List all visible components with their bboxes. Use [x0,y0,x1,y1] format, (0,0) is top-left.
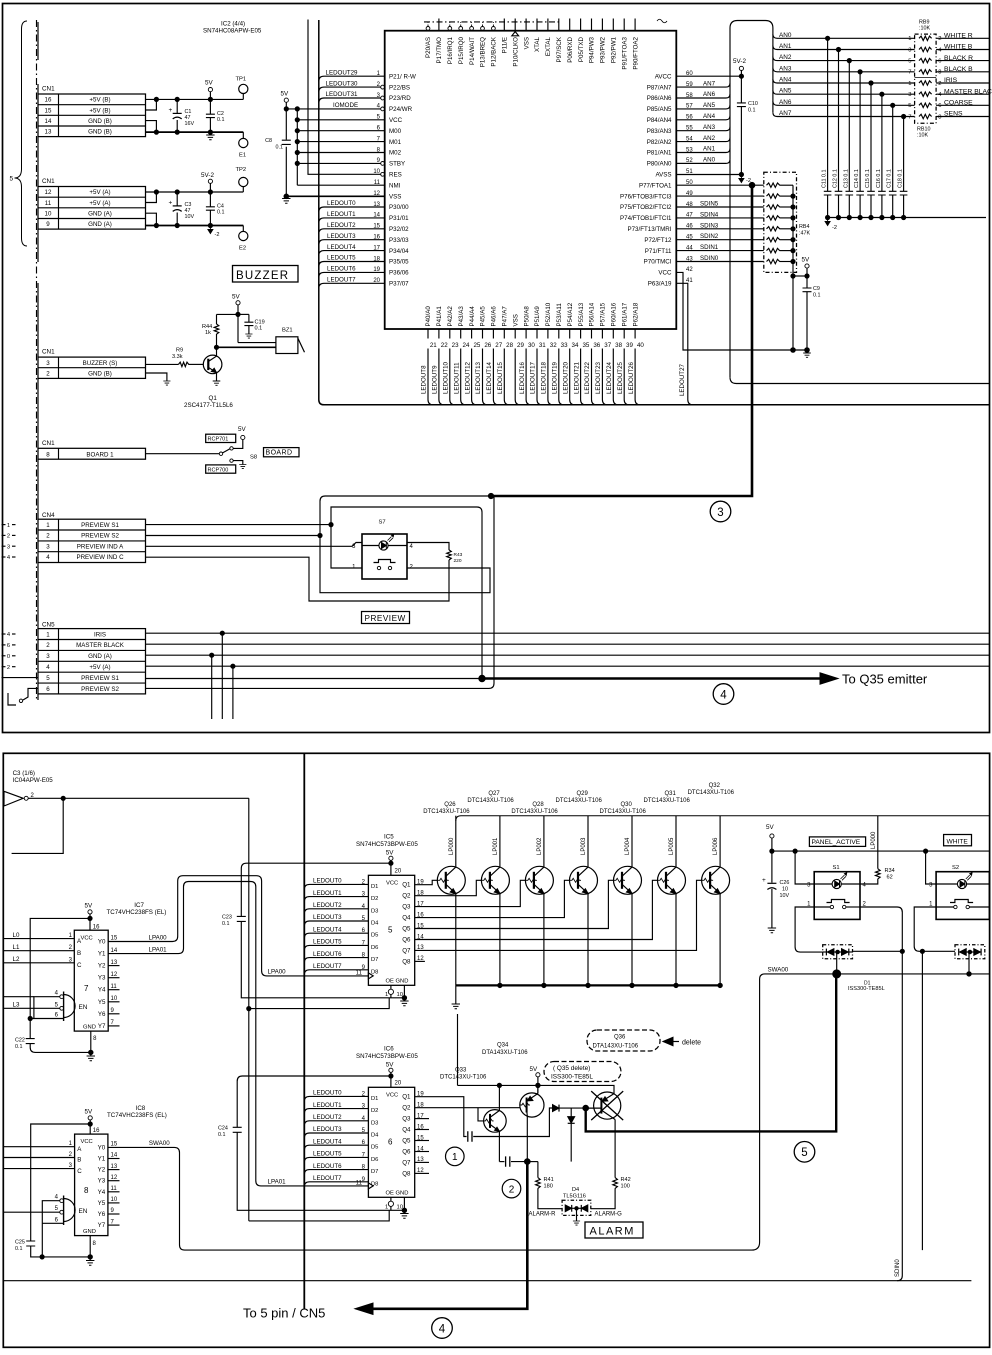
svg-text:VSS: VSS [389,193,401,200]
WHITE label [944,835,972,846]
svg-text:11: 11 [356,1180,363,1186]
capacitor C2 [209,99,211,114]
svg-text:15: 15 [111,936,118,942]
svg-text:TC74VHC238FS (EL): TC74VHC238FS (EL) [107,1112,167,1119]
svg-text:P97/SCK: P97/SCK [556,36,563,62]
svg-text:LEDOUT4: LEDOUT4 [327,244,356,251]
svg-text:C8: C8 [265,138,272,144]
svg-text:L0: L0 [13,932,20,939]
microcontroller IC1 body [385,31,677,329]
svg-text:S8: S8 [250,455,257,461]
bottom pin wires to LEDOUT bus [428,329,640,405]
svg-text:D5: D5 [371,1145,378,1151]
svg-text:P86/AN6: P86/AN6 [647,95,672,102]
svg-text:P52/A10: P52/A10 [545,302,552,326]
svg-text:C13 0.1: C13 0.1 [843,169,849,188]
svg-text:M00: M00 [389,128,402,135]
IC6 inputs LEDOUT0-7 [304,1090,379,1188]
svg-text:GND (B): GND (B) [88,118,112,125]
RCP700 label [206,465,236,473]
wire SDIN1 [676,250,764,252]
svg-text:OE: OE [386,979,395,985]
svg-text:AN6: AN6 [779,99,792,106]
wire S2 loop lower / pin2 [320,536,490,593]
wire AVSS -2 [676,174,741,176]
svg-text:LP004: LP004 [625,837,631,855]
svg-text:P73/FT13/TMRI: P73/FT13/TMRI [627,226,671,233]
svg-text:Q32: Q32 [709,783,721,789]
svg-text:5V: 5V [386,1061,395,1068]
svg-text:VSS: VSS [523,37,530,49]
svg-text:DTC143XU-T106: DTC143XU-T106 [467,798,514,804]
svg-text:14: 14 [111,1153,118,1159]
svg-text:L2: L2 [13,956,20,963]
svg-text:11: 11 [111,1186,118,1192]
CN5 off-page stub 4 [2,633,6,635]
svg-text:5V: 5V [205,80,214,87]
svg-text:P87/AN7: P87/AN7 [647,84,672,91]
squiggle mark [657,19,667,23]
wire link1 to diode [473,1108,552,1137]
svg-text:Y4: Y4 [98,1189,106,1196]
svg-text:11: 11 [45,200,52,207]
S2 pin3 wire [926,851,937,884]
svg-text:D4: D4 [371,1133,379,1139]
svg-text:5V: 5V [85,903,94,910]
svg-text:DTC143XU-T106: DTC143XU-T106 [644,798,691,804]
svg-text:0.1: 0.1 [15,1044,23,1050]
svg-text:10: 10 [111,1197,118,1203]
wire LEDOUT1 [319,218,385,223]
svg-text:7: 7 [111,1219,115,1225]
svg-text:C12 0.1: C12 0.1 [833,169,839,188]
svg-text:P81/AN1: P81/AN1 [647,150,672,157]
dual diode D2 [955,945,985,959]
IC8 pin6 [42,1222,63,1224]
svg-text:P82/AN2: P82/AN2 [647,139,672,146]
IC8 pin4 [60,1199,64,1203]
emitter bus ground [455,985,457,1004]
base wire from IC5 Q5 [415,880,614,928]
svg-text:15: 15 [45,107,52,114]
wire IC6 Q2 to bases [415,1107,520,1109]
svg-text:P92/PW1: P92/PW1 [611,36,618,63]
transistor Q27 DTC143XU-T106 [467,791,514,985]
svg-text:AN7: AN7 [703,80,716,87]
resistor R41 180 [527,1161,538,1163]
svg-text:Q29: Q29 [577,791,589,797]
svg-text:3: 3 [352,544,356,550]
svg-text:C14 0.1: C14 0.1 [854,169,860,188]
svg-text:8: 8 [84,1186,89,1195]
svg-text:10V: 10V [780,893,790,899]
svg-text:EN: EN [79,1004,88,1011]
svg-text:4: 4 [7,555,11,561]
wire IC8 input B [4,1157,75,1159]
svg-text:4: 4 [863,883,867,889]
svg-text:L1: L1 [13,944,20,951]
svg-text:PREVIEW S2: PREVIEW S2 [81,533,119,540]
svg-text:P57/A15: P57/A15 [600,302,607,326]
svg-text:WHITE R: WHITE R [944,33,973,40]
svg-text:Q1: Q1 [209,395,218,402]
svg-text:DTC143XU-T106: DTC143XU-T106 [600,809,647,815]
svg-text:AN2: AN2 [779,54,792,61]
svg-text:P22/BS: P22/BS [389,84,410,91]
svg-text:P91/FTOA3: P91/FTOA3 [621,36,628,69]
svg-text:EN: EN [79,1208,88,1215]
svg-text:CN1: CN1 [42,440,55,447]
svg-text:Q3: Q3 [402,904,411,911]
svg-text:SDIN3: SDIN3 [700,222,719,229]
svg-text:ALARM-R: ALARM-R [529,1211,557,1217]
svg-text:DTC143XU-T106: DTC143XU-T106 [556,798,603,804]
svg-text:PREVIEW IND C: PREVIEW IND C [76,554,124,561]
svg-text:To Q35 emitter: To Q35 emitter [842,671,928,686]
5V rail horizontal [772,850,989,852]
svg-text:LEDOUT15: LEDOUT15 [497,361,504,394]
IC8 pin5 [60,1210,64,1214]
base wire from IC5 Q6 [415,880,658,939]
svg-text:C: C [77,1168,82,1175]
svg-text:LEDOUT2: LEDOUT2 [313,1114,342,1121]
svg-text:29: 29 [517,342,524,349]
svg-text:LEDOUT27: LEDOUT27 [679,363,686,396]
emitter bus [456,984,720,986]
svg-text:P72/FT12: P72/FT12 [644,237,672,244]
IC5 inputs LEDOUT0-7 [304,878,379,976]
base wire from IC5 Q1 [415,880,438,884]
svg-text:LEDOUT6: LEDOUT6 [313,1163,342,1170]
svg-text:1: 1 [908,36,911,42]
svg-text:Q2: Q2 [402,1105,411,1112]
svg-text:1k: 1k [205,330,211,336]
resistor R44 1k [217,313,239,315]
svg-text:+: + [762,877,766,884]
svg-text:P10/CLKO: P10/CLKO [512,37,519,67]
svg-text:LEDOUT25: LEDOUT25 [617,361,624,394]
svg-text:AN2: AN2 [703,135,716,142]
svg-text::47K: :47K [799,231,810,237]
svg-text:13: 13 [111,960,118,966]
svg-text:SDIN4: SDIN4 [700,211,719,218]
svg-text:2: 2 [938,36,941,42]
IC8 outputs [98,1142,120,1230]
svg-text:28: 28 [506,342,513,349]
svg-text:P35/05: P35/05 [389,259,409,266]
CN4 off-page stub 4 [2,556,6,558]
svg-text:D5: D5 [371,933,378,939]
svg-text:0.1: 0.1 [255,326,263,332]
svg-text:Y1: Y1 [98,951,106,958]
wire SDIN2 [676,239,764,241]
svg-text:Y3: Y3 [98,975,106,982]
svg-text:20: 20 [395,1080,402,1086]
svg-text:D6: D6 [371,1157,378,1163]
svg-text:P31/01: P31/01 [389,215,409,222]
svg-text:IC8: IC8 [136,1105,146,1112]
svg-text:P93/PW2: P93/PW2 [600,36,607,63]
svg-text:PREVIEW IND A: PREVIEW IND A [77,543,124,550]
svg-text:-2: -2 [832,225,837,231]
svg-text:LEDOUT19: LEDOUT19 [552,361,559,394]
svg-text:LEDOUT7: LEDOUT7 [327,277,356,284]
svg-text:10: 10 [782,887,788,893]
svg-text:P43/A3: P43/A3 [458,306,465,327]
svg-text:P50/A8: P50/A8 [523,306,530,327]
svg-text:RCP700: RCP700 [208,467,229,473]
svg-text:SWA00: SWA00 [768,967,789,974]
IC6 outputs [402,1092,424,1178]
svg-text:P42/A2: P42/A2 [447,306,454,327]
svg-text:LEDOUT0: LEDOUT0 [327,200,356,207]
svg-text:7: 7 [84,984,89,993]
svg-text:LEDOUT18: LEDOUT18 [541,361,548,394]
svg-text:P16/IRQ1: P16/IRQ1 [447,36,454,64]
C26 ground [768,928,776,933]
svg-text:M01: M01 [389,139,402,146]
svg-text:10V: 10V [185,214,195,220]
svg-text:P13/BREQ: P13/BREQ [480,37,487,67]
bottom panel border frame [3,753,989,1347]
svg-text:27: 27 [495,342,502,349]
svg-text:6: 6 [388,1138,393,1147]
RCP701 label [206,434,236,442]
svg-text:CN1: CN1 [42,86,55,93]
svg-text:4: 4 [410,544,414,550]
svg-text:0.1: 0.1 [276,145,284,151]
svg-text:D2: D2 [371,896,378,902]
svg-text:6: 6 [7,643,10,649]
svg-text:S7: S7 [379,520,386,526]
wire VCC pin42 to 5V [676,272,807,350]
svg-text:STBY: STBY [389,161,405,168]
IC6 OE pin1 [390,1197,392,1201]
svg-text:8: 8 [938,114,941,120]
svg-text:BZ1: BZ1 [282,328,293,334]
svg-text:3: 3 [929,883,933,889]
svg-text:D8: D8 [371,969,378,975]
svg-text:40: 40 [637,342,644,349]
svg-text:4: 4 [439,1323,446,1335]
svg-text:3: 3 [46,543,50,550]
svg-text:5: 5 [908,58,911,64]
svg-text:LEDOUT31: LEDOUT31 [326,91,359,98]
base wire from IC5 Q4 [415,880,570,917]
transistor Q32 DTC143XU-T106 [688,783,735,985]
svg-text:IRIS: IRIS [944,77,958,84]
svg-text:Q36: Q36 [614,1034,626,1040]
svg-text:LEDOUT5: LEDOUT5 [313,939,342,946]
svg-text:LEDOUT1: LEDOUT1 [327,211,356,218]
svg-text:C3 (1/6): C3 (1/6) [13,770,35,777]
svg-text:P36/06: P36/06 [389,270,409,277]
svg-text:5: 5 [46,675,50,682]
svg-text:P76/FTOB3/FTCI3: P76/FTOB3/FTCI3 [620,193,672,200]
svg-text:AN1: AN1 [703,146,716,153]
S1 pin3 wire [795,851,814,884]
svg-text:7: 7 [908,70,911,76]
svg-text:3: 3 [717,507,723,519]
svg-text:16: 16 [93,1128,100,1134]
svg-text:21: 21 [430,342,437,349]
IC1 top pin names [425,36,639,69]
link circle 4b [432,1318,453,1339]
svg-text:5V: 5V [281,91,290,98]
svg-text:LEDOUT12: LEDOUT12 [464,361,471,394]
svg-text:P75/FTOB2/FTCI2: P75/FTOB2/FTCI2 [620,204,672,211]
svg-text:BLACK B: BLACK B [944,66,973,73]
svg-text:5V: 5V [85,1108,94,1115]
svg-text:R34: R34 [885,868,895,874]
5V supply C9 [793,275,807,277]
svg-text:3: 3 [46,360,50,367]
svg-text:9: 9 [111,1208,115,1214]
svg-text:10: 10 [111,996,118,1002]
svg-text:IC5: IC5 [384,834,394,841]
svg-text:2: 2 [7,534,10,540]
top panel border frame [3,4,990,733]
wire SDIN5 [676,206,764,208]
svg-text:P20/AS: P20/AS [425,37,432,58]
svg-text:Q4: Q4 [402,1127,411,1134]
wire FTCI3 pin49 [676,195,764,197]
svg-text:ALARM: ALARM [590,1226,635,1238]
svg-text:1: 1 [46,631,50,638]
capacitor C10 [740,71,742,175]
wire +5V(A) row12 [146,191,244,193]
svg-text:B: B [77,1157,81,1164]
svg-text:D4: D4 [572,1187,579,1193]
svg-text:24: 24 [463,342,470,349]
svg-text:S2: S2 [952,865,959,871]
svg-text:P45/A5: P45/A5 [480,306,487,327]
capacitor C1 [176,99,178,113]
svg-text:AN5: AN5 [703,102,716,109]
wire GND(B) to ground [146,373,167,381]
svg-text:D1: D1 [371,1096,378,1102]
svg-text:2: 2 [7,665,10,671]
svg-text:LEDOUT20: LEDOUT20 [562,361,569,394]
svg-text:4: 4 [720,689,727,701]
IC7 enable gate [63,992,65,1022]
capacitor C23 rail [241,863,404,998]
svg-text:220: 220 [454,558,462,564]
svg-text:LEDOUT13: LEDOUT13 [475,361,482,394]
svg-text:SENS: SENS [944,111,963,118]
terminal E2 [242,226,244,232]
SDIN0 bottom rail [3,1280,971,1282]
svg-text:26: 26 [484,342,491,349]
svg-text:P94/PW3: P94/PW3 [589,36,596,63]
svg-text:6: 6 [55,1013,59,1019]
svg-text:LP006: LP006 [713,837,719,855]
AN bus trunk [676,21,773,164]
CN5 off-page stub 2 [2,666,6,668]
transistor Q35 (deleted) [594,1092,621,1119]
resistor network RB4 47K [764,172,797,272]
wire +5V(B) row16 [146,98,244,100]
svg-text:LEDOUT5: LEDOUT5 [313,1151,342,1158]
svg-text:LEDOUT6: LEDOUT6 [327,266,356,273]
svg-text:22: 22 [441,342,448,349]
svg-text:AN5: AN5 [779,88,792,95]
link circle 4 [713,684,734,705]
IC5 outputs [402,880,424,966]
svg-text:42: 42 [686,267,693,273]
AN pin curves [676,80,730,163]
svg-text:C11 0.1: C11 0.1 [822,170,828,188]
capacitor common -2 rail [828,217,986,219]
svg-text:SDIN0: SDIN0 [700,255,719,262]
svg-text:1: 1 [385,1205,388,1211]
wire NMI [297,184,384,186]
thick net to SWA00 (5) [586,974,837,1132]
svg-text:AVCC: AVCC [655,73,672,80]
svg-text:180: 180 [544,1184,553,1190]
svg-text:Q7: Q7 [402,947,411,954]
svg-text:1: 1 [46,522,50,529]
svg-text:P56/A14: P56/A14 [589,302,596,326]
svg-text:IC04APW-E05: IC04APW-E05 [13,777,54,784]
svg-text:A: A [77,1146,82,1153]
svg-text:TP1: TP1 [236,77,247,83]
svg-text:4: 4 [46,664,50,671]
svg-text:0.1: 0.1 [217,117,225,123]
svg-text:D6: D6 [371,945,378,951]
svg-text:12: 12 [111,1175,118,1181]
svg-text:ISS300-TE85L: ISS300-TE85L [848,986,885,992]
svg-text:Q8: Q8 [402,1170,411,1177]
transistor Q28 DTC143XU-T106 [511,802,558,985]
svg-text:Q34: Q34 [497,1043,509,1049]
svg-text:PREVIEW: PREVIEW [365,614,406,623]
AN trunk lower [729,159,731,377]
dual diode D1 [823,945,853,959]
wire IOMODE [286,108,380,110]
svg-text:LP005: LP005 [669,837,675,855]
svg-text:R42: R42 [621,1177,631,1183]
IC1 bottom pin names [425,302,639,326]
capacitor C3 [176,192,178,206]
svg-text:62: 62 [887,875,893,881]
wire LEDOUT4 [319,251,385,256]
S1 pin1 wire [795,907,823,952]
D1 right wire [853,950,903,952]
svg-text:IOMODE: IOMODE [333,102,358,109]
base wire from IC5 Q7 [415,880,702,950]
svg-text:P84/AN4: P84/AN4 [647,117,672,124]
capacitor C19 [238,313,249,315]
CN5 off-page stub 0 [2,655,6,657]
svg-text:CN5: CN5 [42,621,55,628]
svg-text:E2: E2 [239,246,246,252]
svg-text:D4: D4 [371,921,379,927]
S1 pin2 wire / SDIN0 [860,907,902,1281]
svg-text:IC7: IC7 [134,902,144,909]
wire PREVIEW S1 [146,524,332,526]
svg-text:6: 6 [938,103,941,109]
svg-text:Y0: Y0 [98,1144,106,1151]
svg-text:3: 3 [7,544,10,550]
svg-text:VCC: VCC [81,1139,93,1145]
wire MASTER BLACK [146,643,990,645]
svg-text:P32/02: P32/02 [389,226,409,233]
svg-text:DTC143XU-T106: DTC143XU-T106 [423,809,470,815]
VCC/mode pin rail [296,109,298,185]
svg-text:AVSS: AVSS [655,172,671,179]
svg-text:C: C [77,962,82,969]
